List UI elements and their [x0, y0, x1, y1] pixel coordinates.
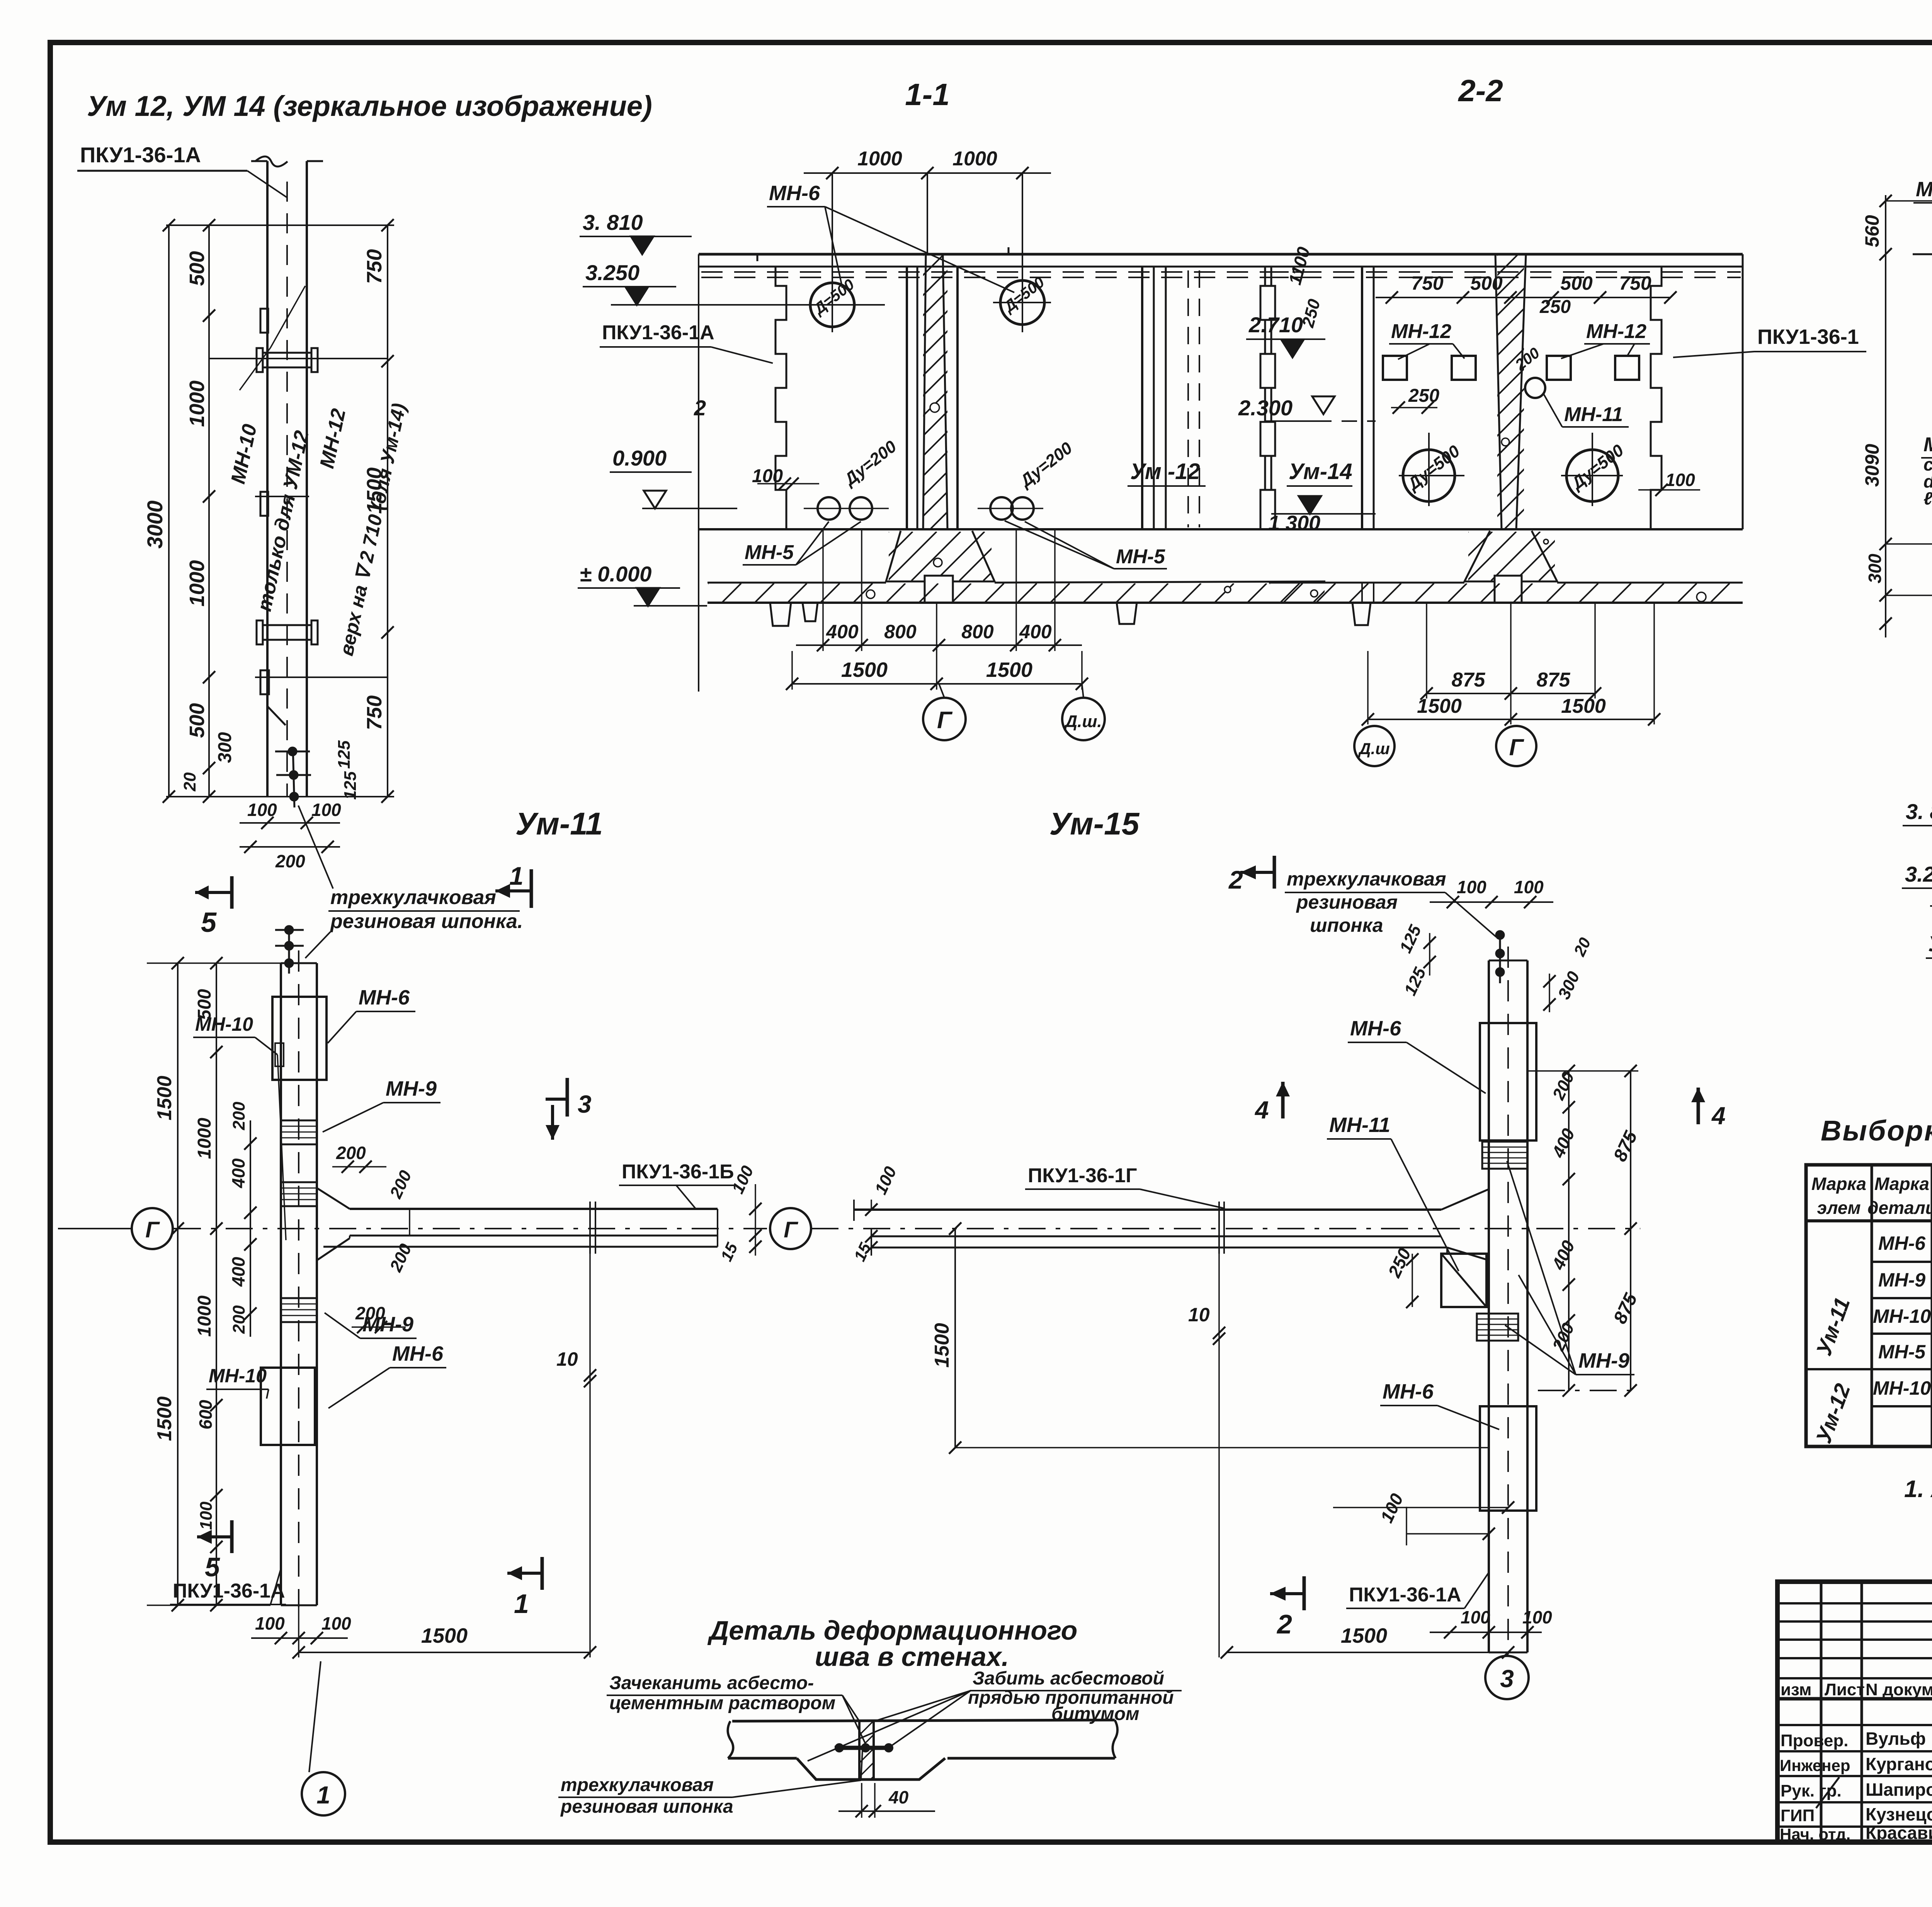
УМ-11 end dims 100/15 (right): [717, 1163, 777, 1264]
svg-text:500: 500: [1560, 272, 1593, 294]
svg-text:200: 200: [230, 1305, 248, 1334]
svg-text:ПКУ1-36-1Б: ПКУ1-36-1Б: [622, 1161, 734, 1183]
УМ-15 top dims 100/100/125/125/300/20: [1396, 877, 1594, 1012]
svg-text:10: 10: [556, 1348, 578, 1370]
section 3-3 left dim chain 560/3090/300: [1861, 195, 1932, 637]
УМ-15 МН-6 plate (upper): [1480, 1023, 1536, 1140]
title block signature texts: [1780, 1680, 1932, 1882]
УМ-11 МН-6 plate (upper): [272, 997, 327, 1080]
svg-text:2.300: 2.300: [1238, 396, 1293, 420]
section mark 3 (УМ-11): [546, 1078, 592, 1140]
svg-text:1500: 1500: [421, 1624, 468, 1647]
svg-text:МН-11: МН-11: [1564, 403, 1623, 426]
section 1-1 pipe holes Ду=500: [804, 173, 1051, 332]
svg-text:МН-5: МН-5: [1116, 546, 1165, 568]
УМ-15 joint 10 dim: [1188, 1254, 1225, 1657]
section 2-2 elevation marks: [1238, 245, 1376, 535]
note 1 Армирование: [1904, 1476, 1932, 1543]
svg-text:Ум-15: Ум-15: [1049, 806, 1140, 841]
detail labels (asbestos): [607, 1668, 1182, 1761]
section 1-1 foundation: [690, 531, 1332, 626]
svg-text:500: 500: [194, 989, 215, 1020]
axis bubble 3 (УМ-15 bottom): [1485, 1654, 1529, 1699]
label МН-6 (УМ-11 upper): [328, 986, 415, 1043]
svg-text:Г: Г: [1509, 734, 1525, 760]
svg-text:100: 100: [255, 1613, 285, 1633]
selection table left data: [1811, 1221, 1932, 1446]
svg-text:3. 810: 3. 810: [583, 210, 643, 235]
dim 100 (left wall): [752, 466, 819, 490]
svg-text:1: 1: [514, 1589, 529, 1619]
svg-text:МН-10: МН-10: [209, 1365, 267, 1387]
svg-text:125: 125: [335, 740, 354, 769]
label МН-6 of section 1-1: [767, 182, 1014, 292]
section mark 1 (bottom, УМ-11): [507, 1557, 542, 1619]
section mark 5 (upper): [195, 876, 232, 938]
selection table left half grid: [1806, 1165, 1932, 1446]
axis bubbles Дш and Г of section 2-2: [1354, 726, 1536, 766]
svg-text:резиновая: резиновая: [1296, 891, 1398, 913]
svg-text:750: 750: [1619, 272, 1651, 294]
label ПКУ1-36-1Г: [1025, 1164, 1225, 1208]
svg-text:МН-6: МН-6: [769, 182, 820, 205]
svg-text:3.250: 3.250: [1905, 862, 1932, 886]
svg-text:3000: 3000: [143, 500, 167, 549]
svg-text:4: 4: [1711, 1102, 1726, 1130]
svg-text:40: 40: [888, 1787, 909, 1807]
svg-text:Ум-12: Ум-12: [1928, 931, 1932, 956]
svg-text:3: 3: [578, 1090, 592, 1118]
svg-text:1000: 1000: [194, 1118, 215, 1159]
svg-text:1500: 1500: [1417, 695, 1462, 717]
section mark 2 (top, УМ-15): [1228, 856, 1274, 894]
svg-text:МН-12: МН-12: [1391, 320, 1451, 343]
svg-text:ПКУ1-36-1: ПКУ1-36-1: [1757, 325, 1859, 348]
svg-text:1: 1: [316, 1781, 330, 1809]
svg-text:элем: элем: [1817, 1198, 1861, 1218]
section title 1-1: [905, 77, 950, 112]
svg-text:МН-9: МН-9: [386, 1077, 437, 1100]
svg-text:ПКУ1-36-1А: ПКУ1-36-1А: [173, 1580, 285, 1602]
section 3-3 level line 3.810: [1913, 208, 1932, 254]
svg-text:Марка: Марка: [1874, 1174, 1929, 1194]
bottom small dims 100/100/200 of element: [240, 800, 341, 871]
label Ум-12 of 5-5: [1926, 909, 1932, 958]
selection table headers: [1811, 1172, 1932, 1220]
table heading Выборка закладных деталей: [1821, 1115, 1932, 1147]
svg-text:± 0.000: ± 0.000: [580, 562, 651, 586]
label Ум-14 (left of 2-2): [1287, 459, 1352, 486]
svg-text:200: 200: [336, 1143, 366, 1163]
dim chain 500/1000/1000/500: [180, 219, 235, 803]
svg-text:3. 810: 3. 810: [1906, 799, 1932, 824]
УМ-15 end dims 100/15 (left): [850, 1164, 901, 1264]
УМ-15 МН-11 corner plate: [1441, 1248, 1486, 1307]
svg-text:100: 100: [1461, 1607, 1490, 1627]
svg-text:ГИП: ГИП: [1781, 1806, 1815, 1825]
section 3-3 МН-5 sleeve and label: [1921, 433, 1932, 528]
section 2-2 foundation: [1251, 531, 1743, 625]
label ПКУ1-36-1А leader (top-left): [77, 143, 287, 198]
svg-text:Инженер: Инженер: [1780, 1756, 1850, 1774]
rotated labels МН-10 / только для УМ-12 / МН-12 / верх на 2.710: [227, 286, 410, 658]
section mark 2 (bottom): [1270, 1576, 1304, 1639]
svg-text:1500: 1500: [1341, 1624, 1387, 1647]
dim chain 3000 (left): [143, 219, 175, 803]
svg-text:1 300: 1 300: [1268, 512, 1320, 535]
svg-text:1000: 1000: [857, 148, 902, 170]
svg-text:5: 5: [201, 907, 217, 938]
detail title Деталь деформационного шва в стенах: [707, 1615, 1078, 1672]
svg-text:Выборка закладных деталей н: Выборка закладных деталей на один элемен…: [1821, 1115, 1932, 1147]
svg-text:200: 200: [230, 1101, 248, 1130]
УМ-15 vertical dim 1500 (left): [931, 1222, 1489, 1454]
svg-text:Курганова: Курганова: [1866, 1754, 1932, 1774]
svg-text:Ум-14: Ум-14: [1289, 459, 1352, 484]
svg-text:20: 20: [180, 772, 199, 792]
section 1-1 top slab: [699, 247, 1325, 277]
label МН-11 (УМ-15): [1327, 1113, 1459, 1271]
УМ-11 anchor bolts (top): [275, 925, 304, 974]
svg-text:МН-10: МН-10: [1873, 1305, 1931, 1327]
УМ-11 bottom dims 100/100 and 1500: [251, 1605, 596, 1659]
svg-text:Кузнецов: Кузнецов: [1866, 1804, 1932, 1824]
УМ-15 bottom dims 100/100 and 1500: [1221, 1607, 1552, 1659]
detail wall section with joint: [728, 1720, 1117, 1780]
elevation marks of section 1-1: [578, 210, 808, 606]
svg-text:Красавин-: Красавин-: [1866, 1823, 1932, 1843]
svg-text:трехкулачковая: трехкулачковая: [1287, 868, 1446, 890]
svg-text:МН-6: МН-6: [392, 1342, 444, 1365]
title Ум 12, УМ 14 (зеркальное изображение): [87, 90, 652, 122]
view title УМ-11: [515, 806, 603, 841]
svg-text:Рук. гр.: Рук. гр.: [1781, 1781, 1842, 1800]
svg-text:N докум.: N докум.: [1866, 1680, 1932, 1699]
detail dim 40: [838, 1783, 935, 1818]
section 2-2 wall outline: [1265, 254, 1743, 529]
svg-text:ℓ=200: ℓ=200: [1923, 488, 1932, 508]
УМ-11 horizontal wall: [174, 1188, 767, 1260]
labels МН-5 of section 1-1: [743, 521, 1167, 569]
svg-text:500: 500: [1470, 272, 1503, 294]
section 3-3 column: [1739, 180, 1932, 544]
svg-text:Зачеканить асбесто-: Зачеканить асбесто-: [609, 1673, 814, 1693]
УМ-15 anchor bolts: [1496, 930, 1504, 983]
svg-text:2: 2: [1276, 1609, 1292, 1639]
title block left signature table: [1777, 1582, 1932, 1842]
svg-text:Нач. отд.: Нач. отд.: [1780, 1825, 1850, 1843]
section 2-2 embedded plates МН-12: [1383, 320, 1650, 380]
section 2-2 bottom dims 875/875 and 1500/1500: [1362, 603, 1660, 726]
УМ-11 dims 200 near junction: [332, 1143, 415, 1333]
label МН-10 of 3-3: [1913, 178, 1932, 224]
svg-text:Деталь деформационного: Деталь деформационного: [707, 1615, 1078, 1645]
svg-text:МН-9: МН-9: [1578, 1349, 1629, 1372]
section 1-1 dim 1000/1000: [804, 148, 1051, 254]
svg-text:МН-6: МН-6: [1350, 1017, 1401, 1040]
svg-text:3.250: 3.250: [585, 260, 639, 285]
svg-text:100: 100: [1522, 1607, 1552, 1627]
axis bubble Г (УМ-11): [58, 1208, 173, 1249]
svg-text:1000: 1000: [185, 560, 209, 607]
label МН-9 (УМ-11): [323, 1077, 440, 1132]
УМ-11 joint 10 dim: [556, 1254, 596, 1657]
section mark 5 (lower): [197, 1520, 232, 1582]
svg-text:резиновая шпонка: резиновая шпонка: [560, 1797, 733, 1817]
svg-text:Вульф: Вульф: [1866, 1729, 1926, 1749]
label МН-9 (УМ-15): [1505, 1161, 1634, 1375]
УМ-15 МН-9 plates: [1477, 1142, 1527, 1341]
svg-text:0.900: 0.900: [612, 446, 667, 470]
label МН-6 (УМ-15 upper): [1348, 1017, 1486, 1093]
svg-text:2: 2: [1228, 865, 1243, 894]
title block outer frame: [1777, 1582, 1932, 1842]
axis bubble 1 (УМ-11 bottom): [302, 1661, 345, 1815]
svg-text:300: 300: [215, 732, 235, 763]
УМ-11 МН-9 plates: [281, 1120, 317, 1322]
label трехкулачковая резиновая шпонка (between views): [298, 806, 523, 958]
svg-text:400: 400: [228, 1158, 248, 1188]
svg-text:750: 750: [363, 695, 386, 730]
svg-text:250: 250: [1408, 386, 1439, 406]
svg-text:1000: 1000: [952, 148, 997, 170]
svg-text:шпонка: шпонка: [1310, 914, 1383, 936]
detail rubber key: [835, 1743, 893, 1752]
svg-text:100: 100: [321, 1613, 351, 1633]
svg-text:трехкулачковая: трехкулачковая: [330, 886, 496, 909]
svg-text:1500: 1500: [931, 1323, 953, 1368]
svg-text:МН-6: МН-6: [359, 986, 410, 1009]
section 1-1 sleeves Ду=200: [804, 437, 1076, 520]
view title Ум-15: [1049, 806, 1140, 841]
section marks 4 (УМ-15): [1254, 1082, 1726, 1130]
svg-text:Ум 12, УМ 14 (зеркальное изо: Ум 12, УМ 14 (зеркальное изображение): [87, 90, 652, 122]
svg-text:750: 750: [1411, 272, 1444, 294]
svg-text:Д.ш.: Д.ш.: [1063, 712, 1102, 731]
label МН-6 (УМ-15 lower) + plate: [1380, 1380, 1536, 1511]
svg-text:ПКУ1-36-1А: ПКУ1-36-1А: [80, 143, 201, 167]
svg-text:МН-10: МН-10: [1916, 178, 1932, 201]
УМ-15 vertical wall: [1489, 947, 1527, 1654]
svg-text:1500: 1500: [1561, 695, 1606, 717]
dim chain 750/1500/750 (right): [335, 219, 394, 803]
svg-text:2.710: 2.710: [1248, 313, 1303, 337]
svg-text:875: 875: [1452, 669, 1486, 691]
svg-text:Лист: Лист: [1825, 1680, 1865, 1699]
УМ-11 lower МН-6 plate: [261, 1368, 317, 1445]
svg-text:100: 100: [247, 800, 277, 820]
svg-text:500: 500: [185, 251, 209, 286]
svg-text:5: 5: [205, 1552, 220, 1582]
svg-text:Ум-11: Ум-11: [515, 806, 603, 841]
svg-text:МН-5: МН-5: [745, 541, 794, 564]
svg-text:МН-6: МН-6: [1878, 1232, 1926, 1254]
section 1-1 bottom dims 400/800/800/400: [796, 529, 1082, 651]
svg-text:Г: Г: [784, 1217, 798, 1242]
section mark 1 (top, УМ-11): [495, 862, 531, 908]
section 1-1 dims 1500/1500: [786, 603, 1088, 690]
svg-text:100: 100: [1665, 470, 1695, 490]
svg-text:резиновая шпонка.: резиновая шпонка.: [330, 910, 523, 933]
svg-text:200: 200: [275, 851, 305, 871]
extension lines of element dims: [166, 225, 394, 797]
label ПКУ1-36-1Б: [619, 1161, 734, 1208]
svg-text:Г: Г: [145, 1217, 160, 1242]
svg-text:500: 500: [185, 703, 209, 738]
svg-text:100: 100: [1514, 877, 1544, 897]
svg-text:100: 100: [311, 800, 341, 820]
svg-text:400: 400: [826, 621, 859, 642]
svg-text:изм: изм: [1781, 1680, 1811, 1699]
svg-text:Д.ш: Д.ш: [1358, 739, 1389, 758]
section 2-2 top dims 750/500/500/750: [1376, 272, 1677, 414]
svg-text:ПКУ1-36-1А: ПКУ1-36-1А: [1349, 1584, 1461, 1606]
column of element Ум-12/Ум-14: [251, 156, 323, 797]
svg-text:Ум -12: Ум -12: [1130, 459, 1200, 484]
svg-text:1500: 1500: [841, 658, 888, 682]
svg-text:Провер.: Провер.: [1781, 1731, 1848, 1750]
svg-text:600: 600: [196, 1400, 216, 1429]
section 5-5 pipe rings: [1930, 873, 1932, 935]
svg-text:2: 2: [694, 396, 706, 420]
label ПКУ1-36-1А (УМ-15 bottom): [1346, 1572, 1489, 1608]
svg-text:МН-6: МН-6: [1383, 1380, 1434, 1403]
section 3-3 foundation: [1904, 544, 1932, 644]
svg-text:шва в стенах.: шва в стенах.: [815, 1642, 1009, 1672]
УМ-11 vertical wall: [281, 950, 317, 1607]
svg-text:Марка: Марка: [1811, 1174, 1866, 1194]
axis bubble Г (УМ-15): [770, 1208, 854, 1249]
svg-text:1-1: 1-1: [905, 77, 950, 112]
svg-text:750: 750: [363, 249, 386, 284]
УМ-15 dims 250 and 200 (junction): [1376, 1245, 1441, 1308]
svg-text:3: 3: [1500, 1665, 1514, 1693]
svg-text:ПКУ1-36-1А: ПКУ1-36-1А: [602, 321, 714, 344]
svg-text:2-2: 2-2: [1458, 73, 1503, 108]
svg-text:МН-11: МН-11: [1329, 1113, 1390, 1137]
svg-text:1500: 1500: [986, 658, 1032, 682]
label Ум-12 (right of 1-1): [1128, 459, 1206, 486]
axis bubbles Г and Д.ш. of section 1-1: [923, 684, 1105, 740]
section title 2-2: [1458, 73, 1503, 108]
svg-text:875: 875: [1537, 669, 1571, 691]
svg-text:цементным раствором: цементным раствором: [609, 1693, 835, 1713]
УМ-15 right dim chains 200/400/400/200/875/875: [1527, 1065, 1641, 1397]
svg-text:100: 100: [1457, 877, 1486, 897]
svg-text:трехкулачковая: трехкулачковая: [561, 1775, 714, 1795]
svg-text:800: 800: [884, 621, 917, 642]
detail label трехкулачковая резиновая шпонка: [558, 1750, 862, 1817]
label трехкулачковая резиновая шпонка (УМ-15): [1285, 868, 1496, 937]
section 5-5 levels 3.810 / 3.250: [1902, 799, 1932, 906]
УМ-15 dim 100 (lower): [1333, 1490, 1514, 1545]
УМ-11 left dim chains: [147, 957, 286, 1611]
svg-text:1000: 1000: [194, 1295, 215, 1337]
svg-text:3090: 3090: [1861, 444, 1883, 487]
svg-text:100: 100: [197, 1501, 216, 1530]
svg-text:560: 560: [1861, 215, 1883, 247]
svg-text:МН-9: МН-9: [362, 1313, 413, 1336]
svg-text:Шапиро: Шапиро: [1866, 1780, 1932, 1800]
svg-text:1: 1: [509, 862, 524, 890]
svg-text:400: 400: [228, 1257, 248, 1287]
svg-text:1500: 1500: [153, 1396, 176, 1441]
section 2-2 pipe holes Ду=500: [1399, 433, 1628, 506]
svg-text:детали: детали: [1867, 1198, 1932, 1218]
svg-text:800: 800: [961, 621, 994, 642]
svg-text:МН-10: МН-10: [1873, 1377, 1931, 1399]
section 2-2 monolithic strip (tapered): [1224, 254, 1779, 529]
svg-text:1. Армирование монолитн: 1. Армирование монолитных участков см.: [1904, 1476, 1932, 1502]
svg-text:Г: Г: [937, 707, 953, 734]
svg-text:1000: 1000: [185, 381, 209, 427]
svg-text:МН-5: МН-5: [1878, 1341, 1926, 1363]
labels МН-10 / МН-9 / МН-6 (УМ-11 lower): [206, 1313, 446, 1408]
svg-text:МН-5: МН-5: [1923, 433, 1932, 456]
svg-text:250: 250: [1539, 297, 1571, 317]
УМ-15 horizontal wall: [811, 1189, 1640, 1260]
svg-text:10: 10: [1188, 1304, 1210, 1326]
svg-text:1500: 1500: [153, 1076, 176, 1120]
label ПКУ1-36-1 (right of 2-2): [1673, 325, 1866, 357]
svg-text:ПКУ1-36-1Г: ПКУ1-36-1Г: [1028, 1164, 1137, 1187]
section 2-2 top slab: [1265, 254, 1743, 277]
svg-text:МН-9: МН-9: [1878, 1269, 1925, 1291]
svg-text:125: 125: [341, 771, 360, 800]
label ПКУ1-36-1А (УМ-11 bottom): [170, 1569, 286, 1604]
dim 100 near joint of 2-2: [1638, 470, 1700, 496]
section 1-1 monolithic strip: [650, 254, 1271, 529]
section 2-2 МН-11 circle: [1512, 344, 1629, 427]
bottom anchor bolts of element: [275, 748, 311, 807]
svg-text:300: 300: [1865, 554, 1885, 583]
label МН-10 (УМ-11 upper): [193, 1013, 286, 1240]
svg-text:Забить асбестовой: Забить асбестовой: [973, 1668, 1164, 1689]
section 1-1 wall panel outline: [694, 254, 1325, 692]
svg-text:400: 400: [1019, 621, 1052, 642]
svg-text:4: 4: [1254, 1096, 1269, 1124]
svg-text:МН-12: МН-12: [1586, 320, 1646, 343]
